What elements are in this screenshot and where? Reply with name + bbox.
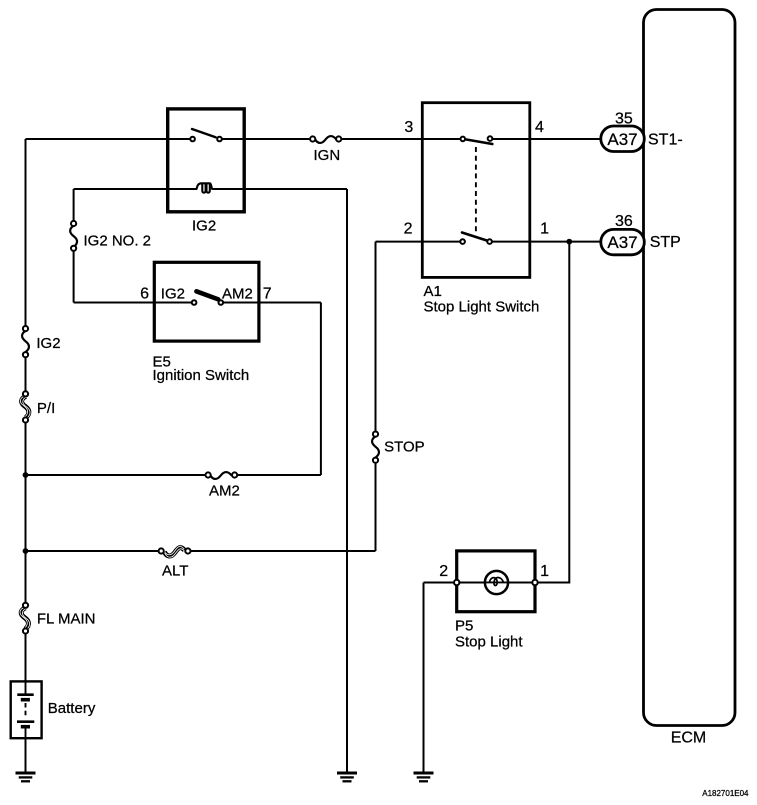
svg-text:2: 2 bbox=[439, 563, 448, 580]
svg-text:1: 1 bbox=[540, 221, 549, 238]
svg-text:FL MAIN: FL MAIN bbox=[37, 611, 96, 628]
svg-text:Stop Light: Stop Light bbox=[455, 634, 523, 651]
svg-text:IG2: IG2 bbox=[161, 286, 185, 303]
svg-text:1: 1 bbox=[540, 563, 549, 580]
svg-text:7: 7 bbox=[263, 286, 272, 303]
svg-text:3: 3 bbox=[404, 119, 413, 136]
svg-text:STP: STP bbox=[650, 234, 681, 251]
svg-text:6: 6 bbox=[140, 286, 149, 303]
svg-text:35: 35 bbox=[615, 111, 633, 128]
svg-text:A37: A37 bbox=[607, 130, 637, 149]
svg-text:IG2: IG2 bbox=[36, 335, 60, 352]
svg-text:AM2: AM2 bbox=[209, 482, 240, 499]
svg-text:Ignition Switch: Ignition Switch bbox=[153, 367, 250, 384]
svg-text:ST1-: ST1- bbox=[648, 132, 683, 149]
svg-text:ALT: ALT bbox=[162, 562, 188, 579]
svg-text:4: 4 bbox=[535, 119, 544, 136]
svg-text:P5: P5 bbox=[455, 618, 473, 635]
svg-text:36: 36 bbox=[615, 213, 633, 230]
svg-text:A37: A37 bbox=[607, 233, 637, 252]
svg-text:IGN: IGN bbox=[314, 147, 341, 164]
svg-text:Battery: Battery bbox=[48, 700, 96, 717]
svg-text:IG2 NO. 2: IG2 NO. 2 bbox=[84, 233, 152, 250]
svg-text:2: 2 bbox=[404, 221, 413, 238]
svg-text:A1: A1 bbox=[424, 283, 442, 300]
svg-text:STOP: STOP bbox=[384, 439, 425, 456]
svg-text:P/I: P/I bbox=[37, 400, 55, 417]
svg-text:AM2: AM2 bbox=[222, 286, 253, 303]
svg-text:Stop Light Switch: Stop Light Switch bbox=[424, 299, 540, 316]
svg-text:A182701E04: A182701E04 bbox=[702, 789, 749, 798]
svg-text:IG2: IG2 bbox=[192, 218, 216, 235]
svg-text:ECM: ECM bbox=[671, 730, 707, 747]
